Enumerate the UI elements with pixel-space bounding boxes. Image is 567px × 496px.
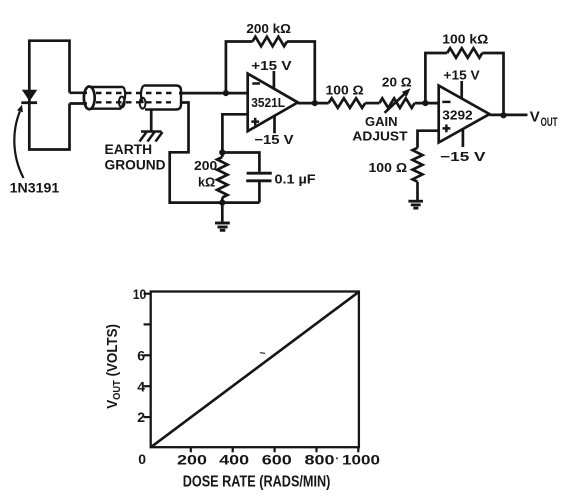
svg-text:2: 2 — [137, 409, 145, 425]
svg-text:4: 4 — [137, 378, 145, 394]
svg-text:400: 400 — [219, 452, 249, 468]
svg-text:DOSE RATE (RADS/MIN): DOSE RATE (RADS/MIN) — [183, 474, 331, 491]
svg-text:1N3191: 1N3191 — [10, 181, 60, 196]
svg-text:+15 V: +15 V — [443, 68, 480, 83]
svg-text:EARTH: EARTH — [105, 142, 153, 157]
svg-text:6: 6 — [137, 347, 145, 363]
svg-text:−15 V: −15 V — [440, 149, 486, 164]
svg-text:200: 200 — [194, 158, 217, 173]
svg-text:100 kΩ: 100 kΩ — [442, 31, 488, 46]
svg-text:kΩ: kΩ — [198, 174, 216, 189]
svg-text:600: 600 — [262, 452, 292, 468]
svg-text:3521L: 3521L — [251, 95, 285, 110]
svg-text:0: 0 — [138, 451, 146, 467]
svg-text:200: 200 — [177, 452, 207, 468]
svg-text:10: 10 — [133, 286, 147, 302]
svg-text:100 Ω: 100 Ω — [326, 83, 364, 98]
svg-text:ADJUST: ADJUST — [352, 128, 407, 143]
svg-text:0.1 µF: 0.1 µF — [275, 172, 316, 187]
svg-text:3292: 3292 — [442, 108, 472, 123]
svg-text:GAIN: GAIN — [365, 114, 398, 129]
svg-text:−15 V: −15 V — [254, 132, 294, 147]
svg-text:GROUND: GROUND — [105, 157, 166, 172]
svg-text:20 Ω: 20 Ω — [382, 75, 412, 90]
svg-text:OUT: OUT — [541, 117, 558, 129]
svg-text:+15 V: +15 V — [251, 58, 292, 73]
svg-text:V: V — [530, 109, 540, 125]
svg-text:200 kΩ: 200 kΩ — [246, 21, 291, 36]
svg-text:100 Ω: 100 Ω — [369, 160, 408, 175]
svg-text:1000: 1000 — [342, 452, 380, 468]
svg-text:800: 800 — [305, 452, 335, 468]
